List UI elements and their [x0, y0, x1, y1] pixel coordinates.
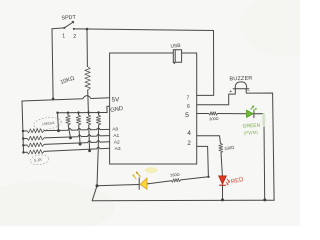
- svg-text:A2: A2: [114, 139, 120, 145]
- svg-text:+: +: [229, 89, 232, 95]
- svg-text:GREEN: GREEN: [242, 123, 260, 130]
- svg-text:5V: 5V: [111, 96, 120, 103]
- svg-text:5.1K: 5.1K: [34, 157, 43, 163]
- svg-text:1: 1: [62, 34, 65, 40]
- svg-text:−: −: [247, 88, 250, 94]
- svg-text:2: 2: [73, 34, 76, 40]
- svg-text:6: 6: [187, 104, 190, 110]
- svg-text:A3: A3: [115, 146, 121, 152]
- svg-text:5: 5: [185, 112, 189, 119]
- svg-text:(PWM): (PWM): [244, 130, 259, 136]
- svg-text:A1: A1: [113, 133, 119, 139]
- svg-text:USB: USB: [170, 43, 180, 50]
- svg-text:BUZZER: BUZZER: [229, 76, 252, 83]
- svg-text:7: 7: [187, 96, 190, 102]
- svg-text:2: 2: [187, 140, 191, 147]
- svg-text:SPDT: SPDT: [61, 15, 76, 22]
- svg-text:A0: A0: [112, 127, 118, 133]
- svg-text:4: 4: [187, 130, 191, 137]
- svg-text:300Ω: 300Ω: [209, 116, 219, 121]
